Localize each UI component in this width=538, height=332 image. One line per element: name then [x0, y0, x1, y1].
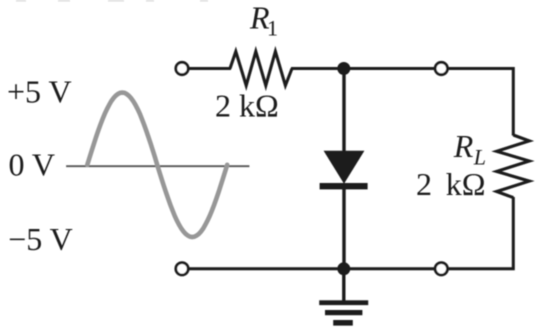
node B (bottom junction dot) [337, 262, 350, 275]
output terminal (bottom right, open circle) [435, 263, 447, 275]
svg-text:+5 V: +5 V [7, 74, 72, 110]
wire: diode cathode to node B [342, 188, 345, 269]
wire: input terminal to R1 [189, 67, 231, 70]
resistor RL [497, 135, 530, 198]
output terminal (top right, open circle) [435, 62, 447, 74]
ground bar 2 [325, 310, 362, 315]
source waveform sine [87, 93, 227, 237]
resistor R1 [230, 52, 292, 86]
ground stub [342, 269, 345, 301]
svg-text:R: R [453, 128, 474, 164]
wire: output terminal to top-right corner down to RL [449, 69, 514, 136]
faint cropped text remnants at top edge [16, 0, 208, 2]
input terminal (top left, open circle) [176, 62, 188, 74]
wire: bottom-left terminal to node B [189, 267, 344, 270]
wire: bottom node to bottom-right terminal [344, 267, 434, 270]
wire: RL to bottom-right corner [449, 197, 514, 269]
svg-text:2 kΩ: 2 kΩ [215, 88, 279, 124]
wire: node A to output terminal [344, 67, 434, 70]
input terminal (bottom left, open circle) [176, 263, 188, 275]
diode D1 cathode bar [320, 183, 368, 189]
ground bar 1 [319, 300, 368, 305]
svg-text:0 V: 0 V [9, 147, 56, 183]
wire: R1 to node A [291, 67, 344, 70]
svg-text:−5 V: −5 V [8, 221, 73, 257]
svg-text:2: 2 [416, 166, 432, 202]
wire: node A to diode anode [342, 69, 345, 153]
ground bar 3 [333, 320, 353, 326]
node A (top junction dot) [337, 62, 350, 75]
svg-text:1: 1 [267, 16, 278, 41]
source waveform zero axis [66, 165, 249, 167]
diode D1 triangle (anode) [324, 151, 365, 184]
svg-text:kΩ: kΩ [446, 166, 486, 202]
